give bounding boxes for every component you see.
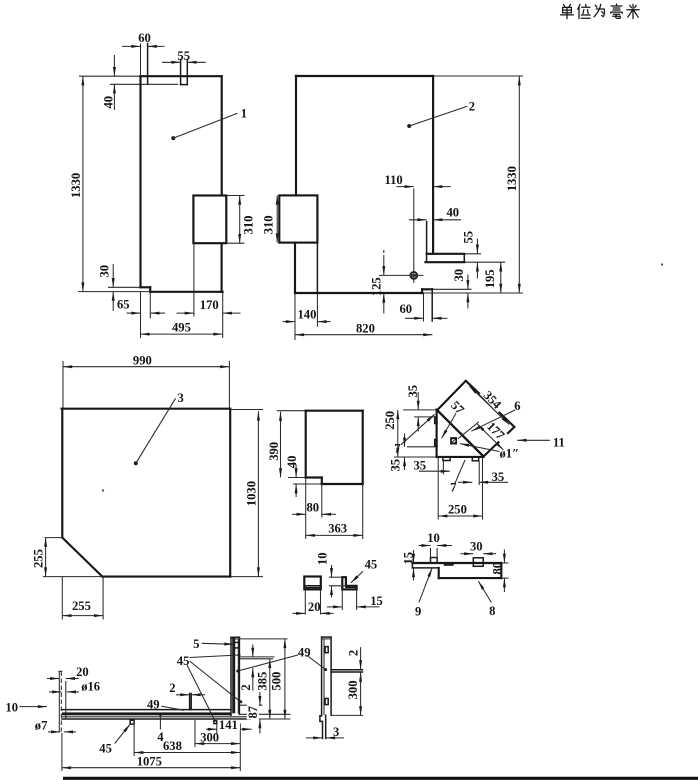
hole circle <box>410 272 417 279</box>
dim 3 <box>306 737 322 739</box>
bottom extension right <box>422 292 523 294</box>
svg-text:5: 5 <box>193 637 199 651</box>
ext 35-top <box>414 416 435 418</box>
svg-text:310: 310 <box>242 216 256 235</box>
svg-text:60: 60 <box>400 302 413 316</box>
dim 35 top upper arrow <box>417 392 419 410</box>
rotated square plate (part 6) <box>437 381 514 457</box>
svg-text:1330: 1330 <box>69 173 83 198</box>
part 2 bottom edge <box>295 292 422 294</box>
dim 1030 <box>257 411 259 576</box>
extension up left (990) <box>62 361 64 409</box>
svg-text:49: 49 <box>147 698 160 712</box>
weld dash <box>444 563 454 565</box>
dim 255 vertical <box>45 538 47 577</box>
char dan <box>561 5 574 19</box>
svg-text:1330: 1330 <box>505 166 519 191</box>
ext 638 left <box>133 725 135 756</box>
dim 310 (fig1) <box>239 196 241 244</box>
svg-text:65: 65 <box>117 298 130 312</box>
bottom ext line <box>331 714 363 716</box>
left edge tab lower (part 7) <box>435 440 437 447</box>
part 1 right edge lower <box>221 244 223 291</box>
svg-text:49: 49 <box>298 646 311 660</box>
dim 170 <box>177 312 194 314</box>
part 1 right bump rectangle <box>193 196 226 244</box>
char wei <box>578 4 590 18</box>
label 45 leader <box>351 571 363 583</box>
dim 40 upper arrow <box>295 465 297 478</box>
dim 30 lower arrow <box>112 292 114 311</box>
dim 15 <box>327 606 342 608</box>
svg-text:8: 8 <box>489 604 495 618</box>
ext main right (141/300/638/1075) <box>239 724 241 772</box>
strip bottom line <box>412 567 438 569</box>
bottom tab right (part 7) <box>472 457 478 461</box>
hole crosshair horizontal <box>379 274 423 276</box>
clip square left (45) <box>130 720 134 724</box>
label phi-1 leader <box>460 444 500 452</box>
flange bottom edge <box>425 261 464 263</box>
dim 40 (fig2) <box>409 219 427 221</box>
svg-text:35: 35 <box>389 459 403 472</box>
45 leader to mid dot <box>190 661 241 702</box>
dim 80 <box>292 513 306 515</box>
clip square lower <box>325 699 328 705</box>
part 3 right edge <box>229 409 231 577</box>
dim 40 lower arrow <box>113 84 115 110</box>
dim 363 <box>306 534 363 536</box>
bottom step edge <box>422 288 432 290</box>
dim 15 lower arrow <box>413 568 415 581</box>
svg-text:310: 310 <box>261 215 275 234</box>
strip left cap <box>411 563 413 568</box>
svg-text:170: 170 <box>200 298 219 312</box>
part top edge <box>306 410 363 412</box>
dim 30 (fig8) <box>461 553 474 555</box>
part 1 bottom edge <box>150 291 222 293</box>
extension lines 65 dim <box>140 292 142 319</box>
part 3 top edge <box>62 408 231 410</box>
step extension left <box>108 286 141 288</box>
dim 2 (channel tab) <box>176 694 189 696</box>
left edge tab upper (part 7) <box>435 417 437 424</box>
dim 80 lower arrow <box>503 578 505 592</box>
svg-text:15: 15 <box>370 594 383 608</box>
svg-text:300: 300 <box>346 681 360 700</box>
part left edge <box>305 411 307 478</box>
channel seam band <box>62 712 231 715</box>
45 leader to bottom clip <box>187 665 215 721</box>
hole circle <box>451 438 456 443</box>
left edge extension down <box>437 457 439 520</box>
dim 10 lower arrow <box>331 586 333 598</box>
dim dia16 <box>49 691 61 693</box>
part bottom edge <box>322 483 363 485</box>
dim 195 <box>500 262 502 293</box>
end view seam band <box>304 585 321 587</box>
dim 300 (side) <box>360 675 362 716</box>
svg-text:55: 55 <box>461 231 475 244</box>
svg-text:300: 300 <box>200 730 219 744</box>
bottom extension left <box>43 576 102 578</box>
char hao <box>611 4 623 18</box>
stray speck right <box>661 263 663 265</box>
flange right cap <box>463 254 465 262</box>
svg-text:11: 11 <box>553 435 565 449</box>
svg-text:ø1″: ø1″ <box>500 447 520 461</box>
svg-text:30: 30 <box>470 539 483 553</box>
label 49 left leader <box>161 706 184 710</box>
svg-text:141: 141 <box>219 718 238 732</box>
bump right edge continued to bottom <box>316 243 318 293</box>
end view rectangle <box>304 577 321 590</box>
extension line 495 left <box>140 319 142 339</box>
dim 87 <box>259 692 261 705</box>
49 leader right to side view <box>306 655 325 669</box>
dim 125 upper arrow <box>383 250 385 257</box>
small tab (10) <box>431 558 438 564</box>
svg-text:ø16: ø16 <box>81 679 100 693</box>
extension 255-horiz left <box>61 577 63 620</box>
part right edge <box>362 411 364 484</box>
rod outer right line <box>65 681 67 719</box>
bottom extension left (1330) <box>78 291 150 293</box>
rod outer left line <box>58 672 60 732</box>
ext 15 dim <box>341 589 343 610</box>
dim 60 (fig2) <box>405 317 424 319</box>
clip 2 ext lines right of member <box>240 656 275 658</box>
slot tab (30) <box>473 558 483 567</box>
extension 255-vert top <box>45 537 64 539</box>
dim 638 <box>134 752 240 754</box>
part 3 bottom edge <box>102 576 230 578</box>
bar inner line <box>323 639 325 715</box>
notch right side (60 dim) <box>147 44 149 85</box>
45 leader to top dot <box>190 655 240 658</box>
vertical member seam band <box>232 637 235 713</box>
svg-text:1: 1 <box>241 107 247 121</box>
svg-text:80: 80 <box>491 562 505 575</box>
part 2 left edge upper <box>295 76 297 195</box>
svg-text:6: 6 <box>514 399 520 413</box>
extension 255-horiz right <box>102 577 104 620</box>
triangle left edge <box>436 410 438 458</box>
svg-text:35: 35 <box>492 470 505 484</box>
label 5 leader <box>202 643 234 644</box>
svg-text:500: 500 <box>270 672 284 691</box>
corner bevel <box>250 714 255 719</box>
label 4 leader <box>159 713 162 716</box>
slot bottom <box>181 84 188 86</box>
bottom step vertical <box>149 287 151 292</box>
slot left wall (40) <box>426 222 428 263</box>
svg-text:2: 2 <box>169 681 175 695</box>
dim 10 upper arrow <box>331 565 333 577</box>
dim 55 <box>162 61 181 63</box>
dim 2 (member clip) <box>252 645 254 657</box>
dim 390 <box>280 412 282 478</box>
dim 30 upper arrow <box>112 264 114 287</box>
dim 35 bottom-right <box>458 481 472 483</box>
bar left edge <box>321 637 323 716</box>
svg-text:30: 30 <box>98 265 112 278</box>
dim 250 left <box>397 410 399 457</box>
channel bottom edge <box>62 718 250 720</box>
rod top cap <box>58 670 62 672</box>
svg-text:45: 45 <box>99 742 112 756</box>
part 3 chamfer <box>62 538 102 577</box>
svg-text:7: 7 <box>394 442 400 456</box>
dim 40 upper arrow <box>113 55 115 76</box>
dim 990 <box>63 366 229 368</box>
dim 310 (fig2) <box>276 195 278 242</box>
part 2 right edge <box>432 76 434 254</box>
dim 2 (side) upper arrow <box>360 647 362 669</box>
svg-text:20: 20 <box>308 600 321 614</box>
svg-text:40: 40 <box>447 205 460 219</box>
dim 20 (rod) <box>47 678 59 680</box>
extension 60-dim left <box>423 293 425 321</box>
dim 110 <box>397 186 414 188</box>
notch extension left <box>288 477 306 479</box>
dim 10 (fig9) <box>419 545 431 547</box>
dim 15 upper arrow <box>413 550 415 563</box>
bottom ext line y719 right <box>243 718 291 720</box>
notch vertical <box>321 478 323 485</box>
vertical member inner line <box>237 639 239 714</box>
dim 1075 <box>62 767 240 769</box>
bottom step vertical <box>421 289 423 293</box>
svg-text:30: 30 <box>452 269 466 282</box>
extension lines 170 dim <box>193 243 195 316</box>
ext 35-right <box>478 461 480 485</box>
svg-text:7: 7 <box>450 481 456 495</box>
bottom step edge <box>141 286 151 288</box>
dim 57 leader <box>442 408 459 438</box>
part 3 left edge <box>61 409 63 538</box>
part 2 left bump rectangle <box>279 195 317 242</box>
svg-text:35: 35 <box>406 385 420 398</box>
right tab extension down <box>431 289 433 321</box>
ext 10 dim <box>430 548 432 558</box>
svg-text:15: 15 <box>401 552 415 565</box>
extension below left edge <box>294 293 296 340</box>
dim 255 horizontal <box>62 615 103 617</box>
svg-text:45: 45 <box>365 558 378 572</box>
member step line extended right <box>239 713 290 715</box>
char wei2 <box>594 4 605 17</box>
bottom edge extension left <box>394 456 437 458</box>
svg-text:250: 250 <box>448 502 467 516</box>
foot step <box>320 715 326 738</box>
dim 125 lower arrow <box>383 293 385 313</box>
triangle hypotenuse <box>437 410 484 457</box>
dim 354 <box>469 386 509 424</box>
dim 65 <box>127 312 141 314</box>
top edge extension right <box>433 75 523 77</box>
member top cap <box>231 636 239 638</box>
label 45 left leader <box>115 724 131 743</box>
flange lines (channel edge-on) <box>331 669 362 671</box>
dim 250 bottom <box>438 515 482 517</box>
bottom extension right <box>230 576 263 578</box>
svg-text:9: 9 <box>415 605 421 619</box>
dim 35 bottom-left <box>419 470 450 472</box>
dim 385 <box>269 659 271 719</box>
block bottom edge <box>439 577 502 579</box>
extension below (140 dim right) <box>316 293 318 327</box>
bottom extension left <box>293 483 322 485</box>
dim 500 <box>284 639 286 719</box>
top cap ext right <box>239 638 287 640</box>
svg-text:363: 363 <box>328 521 347 535</box>
label 2 leader <box>407 124 411 128</box>
channel inner bottom line <box>62 716 250 718</box>
dim 30 (fig2) <box>467 275 469 290</box>
svg-text:255: 255 <box>72 599 91 613</box>
svg-text:20: 20 <box>76 665 89 679</box>
bottom tab left (part 7) <box>443 457 450 460</box>
bar top caps <box>322 636 332 638</box>
dim 35 top lower arrow <box>417 417 419 432</box>
dim 1330 (fig1) <box>82 76 84 291</box>
small tab 2 on channel <box>189 694 191 710</box>
ext 1075 left <box>61 733 63 771</box>
dim 35 left-vert upper arrow <box>404 434 406 447</box>
part 1 top edge <box>141 75 222 77</box>
svg-text:110: 110 <box>385 173 403 187</box>
top edge extension right <box>230 409 263 411</box>
dim 35 left-vert lower arrow <box>404 457 406 470</box>
svg-text:255: 255 <box>32 549 46 568</box>
vertical member right edge <box>238 637 240 714</box>
label 6 leader <box>471 410 515 431</box>
svg-text:10: 10 <box>427 531 440 545</box>
svg-text:40: 40 <box>285 456 299 469</box>
label 9 leader <box>419 568 432 603</box>
svg-text:140: 140 <box>298 307 317 321</box>
extension above left edge (60 dim) <box>140 44 142 77</box>
ext below end view <box>304 589 306 614</box>
ext 80 dim <box>501 562 508 564</box>
label 1 leader <box>171 136 175 140</box>
rod hidden line (dia16) <box>60 672 62 732</box>
top edge extension left <box>79 75 141 77</box>
flange top edge <box>427 253 465 255</box>
svg-text:990: 990 <box>133 353 152 367</box>
side view angle profile <box>342 577 356 589</box>
channel top edge <box>62 709 231 711</box>
ext 141 left <box>216 724 218 734</box>
svg-text:87: 87 <box>246 706 260 719</box>
svg-text:1030: 1030 <box>244 481 258 506</box>
svg-text:3: 3 <box>178 391 184 405</box>
step extension right (30 dim) <box>432 288 471 290</box>
side view seam band <box>346 586 357 588</box>
dim 80 upper arrow <box>503 550 505 564</box>
thin line under top edge <box>110 83 178 85</box>
label 3 leader <box>134 461 138 465</box>
block left edge <box>438 568 440 578</box>
extension up right (990) <box>228 361 230 409</box>
block right edge <box>500 563 502 578</box>
clip square upper <box>325 647 328 653</box>
extension 80 left (left edge down) <box>305 478 307 540</box>
stray speck <box>102 489 104 491</box>
extension 80 right <box>321 484 323 518</box>
svg-text:125: 125 <box>369 277 383 296</box>
right corner extension down <box>482 458 484 520</box>
top edge extension left <box>403 409 437 411</box>
svg-text:820: 820 <box>356 321 375 335</box>
label 11 arrow <box>517 439 550 441</box>
svg-text:495: 495 <box>172 321 191 335</box>
svg-text:10: 10 <box>5 701 18 715</box>
svg-text:195: 195 <box>483 269 497 288</box>
dim 60 <box>122 45 141 47</box>
ext line 87 top <box>240 704 262 706</box>
svg-text:10: 10 <box>315 553 329 566</box>
svg-text:250: 250 <box>383 411 397 430</box>
bar right edge <box>330 637 332 715</box>
svg-text:40: 40 <box>102 96 116 109</box>
bump bottom extension <box>226 242 244 244</box>
svg-text:385: 385 <box>256 672 270 691</box>
slot right wall (55) <box>186 60 188 85</box>
part 2 top edge <box>296 75 433 77</box>
dim 300 <box>195 743 240 745</box>
svg-text:638: 638 <box>163 739 182 753</box>
dim dia7 <box>48 731 60 733</box>
ext 10 dim <box>329 576 342 578</box>
part 1 left edge <box>139 76 141 287</box>
svg-text:2: 2 <box>469 99 475 113</box>
bottom border line <box>63 777 698 780</box>
char mi <box>627 4 639 18</box>
label 10 arrow <box>19 706 47 708</box>
label 7 bottom leader <box>455 460 465 483</box>
svg-text:1075: 1075 <box>137 754 162 768</box>
svg-text:2: 2 <box>239 684 253 690</box>
dim 55 (fig2) <box>476 239 478 254</box>
strip top line <box>412 562 501 564</box>
extension 363 right <box>362 484 364 539</box>
hole square <box>451 438 456 444</box>
top extension left <box>277 410 306 412</box>
svg-text:3: 3 <box>333 725 339 739</box>
dim 1330 (fig2) <box>518 76 520 293</box>
member top clip square (5) <box>234 642 239 648</box>
dim 177 extension from hole <box>458 422 479 439</box>
label 7 left leader <box>401 414 435 445</box>
triangle bottom edge <box>437 456 484 458</box>
svg-text:80: 80 <box>307 500 320 514</box>
svg-text:2: 2 <box>346 650 360 656</box>
part 2 left edge lower <box>294 243 296 293</box>
dim 20 <box>293 612 306 614</box>
ext 35-left-vert <box>407 446 435 448</box>
hole crosshair vertical / 110 extension <box>413 189 415 283</box>
part 1 right edge upper <box>221 76 223 195</box>
notch step edge <box>306 476 322 478</box>
dim 495 <box>140 333 222 335</box>
dim 2/300 shared arrows <box>360 672 362 683</box>
svg-text:60: 60 <box>138 31 151 45</box>
svg-text:35: 35 <box>414 458 427 472</box>
svg-text:55: 55 <box>177 49 190 63</box>
dim 140 <box>283 321 296 323</box>
